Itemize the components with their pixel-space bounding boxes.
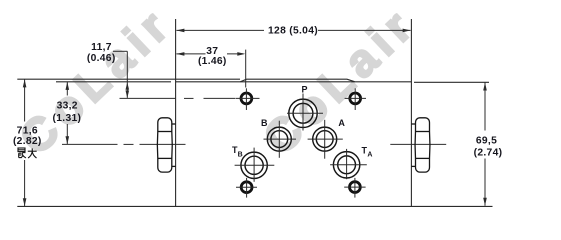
svg-text:A: A: [338, 118, 345, 128]
dimension 37 (1.46): [176, 50, 245, 88]
port B: [267, 127, 291, 151]
svg-text:71,6: 71,6: [17, 126, 38, 137]
svg-text:69,5: 69,5: [476, 136, 497, 147]
dimension 69,5 (2.74): [483, 83, 487, 206]
svg-text:11,7: 11,7: [91, 42, 112, 53]
bolt hole top-left: [236, 88, 260, 110]
bolt hole axis centerline: [120, 97, 236, 99]
svg-text:(1.46): (1.46): [198, 56, 227, 67]
port TA: [333, 152, 359, 178]
port TB: [241, 152, 267, 178]
svg-text:A: A: [367, 152, 372, 159]
svg-text:(2.74): (2.74): [474, 148, 503, 159]
svg-text:128 (5.04): 128 (5.04): [268, 26, 318, 37]
right hex fitting: [411, 118, 430, 172]
svg-text:B: B: [238, 151, 243, 158]
port P: [289, 99, 317, 127]
valve body top outline line: [17, 78, 240, 80]
dimension 33,2 (1.31): [66, 82, 70, 144]
plate top edge: [176, 81, 411, 83]
bottom edge line with extensions: [17, 205, 492, 207]
svg-text:B: B: [261, 118, 268, 128]
plate left edge + extension up to dims: [175, 19, 177, 207]
valve axis centerline: [62, 143, 446, 145]
dimension 71,6 (2.82) max: [23, 79, 27, 206]
69,5 top extension line: [414, 81, 489, 83]
left hex fitting: [157, 118, 175, 172]
svg-text:33,2: 33,2: [57, 101, 78, 112]
top sliver (valve body edge above plate): [240, 79, 354, 82]
bolt hole top-right: [345, 88, 366, 110]
plate right edge + extension up to dims: [410, 19, 412, 207]
plate top edge extension line (for 33,2 dim): [56, 81, 171, 83]
dimension 11,7 (0.46) leader and arrows: [113, 51, 129, 98]
svg-text:(0.46): (0.46): [87, 53, 116, 64]
port A: [313, 127, 337, 151]
CJK label max (zui da) drawn as paths: [18, 148, 37, 158]
37 right extension line down to bolt hole: [245, 50, 247, 88]
dimension 128 (5.04): [176, 29, 410, 33]
svg-text:(1.31): (1.31): [53, 113, 82, 124]
svg-text:P: P: [301, 85, 307, 95]
svg-text:(2.82): (2.82): [13, 136, 42, 147]
bolt hole bottom-left: [236, 178, 257, 198]
bolt hole bottom-right: [344, 178, 365, 198]
